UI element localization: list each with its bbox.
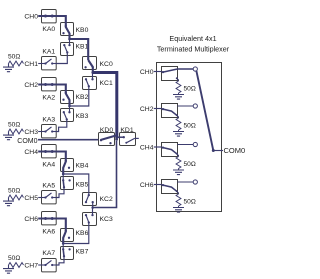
relay KB6 [61, 229, 74, 242]
open contact CH0 [193, 67, 197, 71]
resistor 50ohm CH2 (equivalent) [176, 114, 178, 116]
svg-text:KA2: KA2 [42, 94, 55, 101]
svg-text:CH0: CH0 [140, 69, 154, 76]
resistor 50ohm CH6 (equivalent) [176, 190, 178, 192]
svg-text:Terminated Multiplexer: Terminated Multiplexer [157, 45, 230, 54]
svg-text:50Ω: 50Ω [8, 187, 20, 194]
ground CH6 (equivalent) [173, 208, 184, 213]
ground CH2 (equivalent) [173, 132, 184, 137]
svg-text:KD0: KD0 [100, 127, 113, 134]
svg-text:CH2: CH2 [140, 106, 154, 113]
svg-text:CH6: CH6 [140, 182, 154, 189]
lever KD0 (active) [101, 135, 117, 140]
svg-text:KA4: KA4 [42, 161, 55, 168]
svg-text:CH4: CH4 [24, 149, 38, 156]
ground CH4 (equivalent) [173, 170, 184, 175]
wire CH1 to KB1 [56, 52, 67, 63]
ground for CH1 termination [8, 64, 10, 68]
relay KA4 [42, 145, 57, 158]
svg-text:50Ω: 50Ω [184, 161, 196, 168]
resistor 50ohm on CH3 [9, 129, 24, 134]
open contact CH4 [193, 142, 197, 146]
wire CH7 to KB7 [56, 256, 64, 265]
relay KB2 [61, 91, 74, 104]
resistor 50ohm on CH1 [9, 61, 24, 66]
junction KC2/KC3 [91, 206, 94, 209]
wire CH6 to KB6 [56, 219, 66, 244]
relay KD0 [99, 133, 115, 146]
svg-text:CH6: CH6 [24, 216, 38, 223]
wire KB2/3 junction to KC1 [70, 86, 89, 106]
svg-text:50Ω: 50Ω [184, 123, 196, 130]
resistor 50ohm on CH7 [9, 263, 24, 268]
svg-text:KB0: KB0 [76, 27, 89, 34]
svg-text:KB5: KB5 [76, 181, 89, 188]
ground CH0 (equivalent) [173, 95, 184, 100]
lever CH2 to termination [161, 108, 163, 111]
svg-text:CH2: CH2 [24, 82, 38, 89]
lever KC1 [88, 85, 90, 87]
svg-text:KC2: KC2 [100, 196, 113, 203]
lever KC2 [88, 194, 90, 196]
relay KC1 [83, 77, 97, 90]
relay KC3 [83, 213, 97, 226]
wire KD1 output stub [135, 137, 139, 139]
svg-text:KA6: KA6 [42, 228, 55, 235]
lever CH0 closed to output [161, 71, 163, 74]
wire CH6 into box [154, 184, 161, 186]
svg-text:Equivalent 4x1: Equivalent 4x1 [169, 34, 216, 43]
wire KB junction to KC0 (active) [70, 39, 89, 60]
switch box CH2 (equivalent) [162, 104, 178, 118]
relay KB7 [61, 247, 74, 260]
svg-text:CH5: CH5 [24, 195, 38, 202]
svg-text:KC1: KC1 [100, 80, 113, 87]
svg-text:KB7: KB7 [76, 248, 89, 255]
svg-text:KA5: KA5 [42, 183, 55, 190]
svg-text:COM0: COM0 [224, 146, 246, 155]
junction KB4/KB5 [62, 173, 65, 176]
ground for CH5 termination [8, 198, 10, 202]
relay KB5 [61, 177, 74, 190]
relay KA7 [42, 259, 57, 272]
svg-text:KD1: KD1 [120, 127, 133, 134]
svg-text:CH3: CH3 [24, 129, 38, 136]
equivalent mux enclosure [157, 63, 222, 212]
lever CH4 to termination [161, 146, 163, 149]
ground for CH3 termination [8, 132, 10, 136]
wire CH0 into box [154, 71, 161, 73]
relay KB0 [61, 23, 74, 36]
svg-text:KB4: KB4 [76, 162, 89, 169]
open contact CH6 [193, 180, 197, 184]
svg-text:KA3: KA3 [42, 117, 55, 124]
relay KA0 [42, 10, 57, 23]
relay KA3 [42, 125, 57, 138]
selector wire (equivalent) [196, 71, 213, 151]
relay KB1 [61, 43, 74, 56]
svg-text:KC3: KC3 [100, 216, 113, 223]
relay KD1 [120, 133, 136, 146]
relay KB3 [61, 109, 74, 122]
resistor 50ohm CH0 (equivalent) [176, 77, 178, 79]
wire CH5 to KB5 [56, 187, 64, 197]
ground for CH7 termination [8, 265, 10, 269]
junction KB0/KB1 [68, 38, 71, 41]
relay KA2 [42, 78, 57, 91]
switch box CH0 (equivalent) [162, 67, 178, 81]
svg-text:50Ω: 50Ω [8, 121, 20, 128]
lever KC3 [88, 221, 90, 223]
junction KC0/KC1 [91, 71, 94, 74]
wire to COM0 [213, 150, 223, 152]
lever KC0 (active) [88, 60, 93, 73]
lever KD1 [117, 136, 124, 138]
wire KB6/7 junction to KC3 [63, 222, 89, 243]
wire CH4 into box [154, 146, 161, 148]
svg-text:50Ω: 50Ω [184, 199, 196, 206]
relay KA1 [42, 57, 57, 70]
svg-text:KB6: KB6 [76, 230, 89, 237]
relay KC0 [83, 57, 97, 70]
svg-text:KC0: KC0 [100, 61, 113, 68]
svg-text:KA0: KA0 [42, 26, 55, 33]
svg-text:KB2: KB2 [76, 94, 89, 101]
wire KC junction to KD (active, thick) [93, 73, 117, 139]
junction COM0 (equivalent) [212, 149, 215, 152]
contact stub CH2 [177, 105, 193, 107]
svg-text:CH1: CH1 [24, 61, 38, 68]
svg-text:COM0: COM0 [17, 138, 37, 145]
resistor 50ohm on CH5 [9, 195, 24, 200]
relay KA6 [42, 212, 57, 225]
svg-text:50Ω: 50Ω [8, 255, 20, 262]
resistor 50ohm CH4 (equivalent) [176, 153, 178, 155]
relay KA5 [42, 191, 57, 204]
open contact CH2 [193, 104, 197, 108]
svg-text:50Ω: 50Ω [184, 86, 196, 93]
contact stub CH4 [177, 144, 193, 146]
svg-text:50Ω: 50Ω [8, 53, 20, 60]
junction KB2/KB3 [68, 105, 71, 108]
relay KC2 [83, 193, 97, 206]
wire KB4/5 junction to KC2 [63, 174, 89, 195]
switch box CH4 (equivalent) [162, 143, 178, 157]
contact stub CH6 [177, 181, 193, 183]
wire CH2 into box [154, 108, 161, 110]
svg-text:KA7: KA7 [42, 250, 55, 257]
wire KC2/3 junction to KD1 [93, 141, 117, 208]
svg-text:CH4: CH4 [140, 144, 154, 151]
junction KB6/KB7 [62, 242, 65, 245]
wire CH3 to KB3 [56, 119, 67, 131]
lever CH6 to termination [161, 184, 163, 187]
junction KD0/KD1 [115, 138, 118, 141]
svg-text:KB3: KB3 [76, 113, 89, 120]
wire COM0 to KD0 [38, 139, 99, 141]
svg-text:CH0: CH0 [24, 13, 38, 20]
svg-text:KA1: KA1 [42, 49, 55, 56]
switch box CH6 (equivalent) [162, 180, 178, 194]
svg-text:CH7: CH7 [24, 262, 38, 269]
wire CH0 to KB0 (active path) [56, 16, 70, 39]
wire CH4 to KB4 [56, 152, 66, 175]
wire CH2 to KB2 [56, 85, 70, 107]
svg-text:KB1: KB1 [76, 43, 89, 50]
relay KB4 [61, 159, 74, 172]
